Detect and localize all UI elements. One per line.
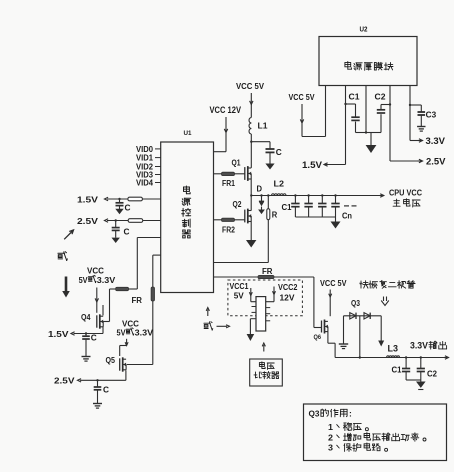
ground (comparator): [250, 318, 256, 320]
resistor (1.5V sense): [128, 197, 142, 201]
diode Q3a: [350, 313, 356, 319]
capacitor C2 (output): [420, 358, 422, 369]
capacitor C (Q5): [96, 379, 98, 381]
capacitor C1 (output): [405, 358, 407, 369]
wire diode mid leg: [359, 316, 361, 358]
wire U2 pin1: [325, 86, 327, 137]
wire main rail: [251, 195, 379, 197]
wire VCC to Q4 gate: [96, 288, 98, 313]
pin comparator right stubs: [266, 307, 271, 309]
svg-text:L2: L2: [274, 179, 285, 189]
svg-text:C: C: [124, 228, 130, 237]
svg-text:1.5V: 1.5V: [77, 195, 98, 205]
inductor L1: [249, 118, 251, 135]
svg-text:C2: C2: [427, 370, 438, 379]
svg-text:12V: 12V: [280, 292, 295, 302]
svg-text:1.5V: 1.5V: [302, 160, 322, 170]
svg-text:VCC 5V: VCC 5V: [289, 92, 315, 102]
transistor Q1: [244, 167, 246, 180]
ground (2.5V C): [112, 238, 120, 243]
wire 2.5V sense: [107, 220, 161, 222]
svg-text:3: 3: [328, 443, 333, 453]
svg-text:FR2: FR2: [222, 226, 235, 235]
svg-text:2.5V: 2.5V: [77, 216, 98, 226]
transistor Q2: [244, 210, 246, 223]
ground (U2 filters): [370, 133, 372, 146]
wire Q5 source to 2.5V: [125, 370, 127, 380]
svg-text:VCC 12V: VCC 12V: [210, 105, 242, 115]
wire FR to Q4: [110, 288, 116, 290]
svg-text:U1: U1: [184, 130, 192, 137]
svg-text:3.3V: 3.3V: [135, 327, 154, 337]
svg-text:2: 2: [328, 432, 333, 442]
svg-text:C3: C3: [426, 111, 437, 120]
svg-text:VCC1: VCC1: [230, 281, 249, 291]
svg-text:FR1: FR1: [222, 179, 235, 188]
svg-text:Q4: Q4: [81, 312, 91, 322]
capacitor bank C1..Cn: [294, 194, 296, 196]
wire Q2 source down: [250, 221, 252, 240]
wire Q4 source to 1.5V: [102, 327, 104, 334]
wire U2 pin3: [365, 86, 367, 133]
pin comparator left stubs: [252, 306, 257, 308]
resistor FR1: [214, 173, 222, 175]
svg-text:D: D: [257, 184, 263, 194]
ground (diode left): [339, 343, 348, 345]
resistor FR (Q4): [116, 287, 129, 290]
svg-text:FR: FR: [132, 296, 143, 305]
wire U2 pin5 to 3.3V: [409, 86, 411, 141]
ground (5V filter C): [265, 164, 274, 170]
transistor Q4: [96, 315, 98, 327]
wire VCC1 to comparator: [250, 288, 252, 302]
svg-text:Cn: Cn: [342, 212, 352, 221]
wire VCC to Q5 gate: [126, 339, 128, 346]
capacitor C (Q4): [85, 332, 87, 334]
svg-text:1.5V: 1.5V: [48, 329, 69, 339]
wire VCC2 to comparator: [273, 287, 275, 302]
wire diode left leg: [343, 316, 345, 344]
svg-text:VCC 5V: VCC 5V: [236, 81, 264, 91]
resistor R: [267, 194, 269, 196]
IC U1 power controller: [161, 142, 214, 293]
wire FR to Q5: [152, 301, 154, 365]
wire Q6 source to output: [327, 332, 329, 344]
IC voltage comparator: [256, 297, 266, 331]
svg-text:3.3V: 3.3V: [426, 136, 446, 146]
svg-text:C1: C1: [349, 93, 361, 102]
svg-text:VID4: VID4: [136, 179, 154, 188]
svg-text:C: C: [103, 386, 109, 395]
svg-text:5V: 5V: [234, 291, 244, 301]
svg-text::: :: [349, 409, 352, 419]
wire Q2 drain to node D: [250, 196, 252, 211]
svg-text:Q1: Q1: [232, 158, 241, 168]
svg-text:C: C: [276, 148, 282, 157]
ground (Q5 C): [93, 403, 102, 405]
svg-text:C: C: [91, 334, 97, 343]
label main voltage: [393, 199, 420, 207]
svg-text:Q3: Q3: [351, 299, 360, 308]
label OR (left): [58, 252, 67, 261]
svg-text:L3: L3: [388, 344, 399, 354]
annotation double arrow down: [383, 297, 385, 302]
svg-text:2.5V: 2.5V: [426, 157, 446, 167]
wire Q1 source to node D: [250, 179, 252, 196]
svg-text:3.3V: 3.3V: [97, 275, 116, 285]
wire rail arrow to CPU VCC: [380, 194, 384, 197]
svg-text:2.5V: 2.5V: [54, 376, 75, 386]
svg-text:VCC 5V: VCC 5V: [320, 278, 347, 288]
wire 3.3V output line: [335, 357, 444, 359]
svg-text:R: R: [272, 211, 278, 220]
label OR (bottom): [204, 322, 213, 330]
svg-text:U2: U2: [360, 25, 368, 34]
svg-text:VCC2: VCC2: [278, 282, 298, 292]
svg-text:Q2: Q2: [233, 199, 242, 209]
wire U2 pin2: [345, 86, 347, 165]
ground (1.5V C): [115, 209, 123, 214]
ground (Q4 C): [82, 356, 91, 358]
svg-text:5V: 5V: [117, 327, 126, 337]
wire L1 to Q1: [250, 134, 252, 168]
svg-text:C2: C2: [375, 93, 387, 102]
wire diode rail: [344, 315, 382, 317]
diode Q3b: [364, 313, 370, 319]
capacitor C (1.5V sense): [118, 198, 120, 200]
wire U2 pin4 to 2.5V: [389, 86, 391, 162]
label comparator box: [250, 359, 283, 386]
resistor FR2: [214, 219, 222, 221]
wire R feedback to U1: [214, 262, 269, 264]
annotation arrow up (or): [207, 310, 209, 317]
resistor FR (bottom): [214, 276, 259, 278]
label U1 power controller text: [184, 186, 191, 194]
svg-text:CPU VCC: CPU VCC: [389, 188, 422, 198]
wire U1 pin to FR net: [137, 237, 160, 239]
svg-text:VID1: VID1: [136, 154, 154, 163]
svg-text:L1: L1: [258, 121, 268, 131]
svg-text:FR: FR: [262, 267, 273, 276]
svg-text:5V: 5V: [79, 275, 88, 285]
svg-text:C1: C1: [392, 366, 403, 375]
label U2 electric source thick film block: [345, 62, 393, 71]
svg-text:Q5: Q5: [106, 355, 116, 365]
resistor (2.5V sense): [128, 219, 143, 223]
dashed box comparator supplies: [228, 280, 303, 316]
note box Q3 function: [304, 404, 447, 461]
annotation arrow up (comparator): [263, 345, 265, 352]
annotation arrow down bold: [65, 277, 68, 292]
svg-text:VID0: VID0: [136, 145, 154, 154]
wire FR to Q6 gate: [313, 277, 315, 328]
inductor L3: [387, 356, 400, 358]
wire diode right leg: [380, 316, 382, 341]
ground (Q2 source): [246, 240, 256, 248]
label fast recovery diode: [360, 280, 415, 288]
annotation arrow NE: [64, 230, 73, 239]
wire U2 pin2 to 1.5V: [328, 164, 346, 166]
svg-text:Q6: Q6: [314, 334, 322, 341]
svg-text:1: 1: [328, 422, 333, 432]
inductor L2: [272, 194, 287, 196]
svg-text:3.3V: 3.3V: [410, 341, 428, 351]
transistor Q6: [321, 321, 323, 333]
ground (cap bank): [335, 217, 337, 222]
capacitor C (5V filter): [251, 141, 270, 143]
svg-text:Q3: Q3: [309, 409, 320, 419]
node D: [250, 194, 252, 196]
capacitor C3: [410, 104, 421, 106]
resistor FR (Q5): [151, 287, 154, 301]
svg-text:C1: C1: [282, 203, 293, 212]
diode D freewheel: [260, 194, 262, 196]
wire Q4 stub: [102, 305, 104, 315]
ground (output): [420, 380, 422, 382]
svg-text:C: C: [125, 204, 131, 213]
IC U2 power thick-film module: [319, 37, 417, 86]
wire U1 pin to FR2 net: [153, 254, 161, 256]
capacitor C (2.5V sense): [115, 219, 117, 221]
wire 1.5V sense: [107, 198, 161, 200]
transistor Q5: [119, 358, 121, 370]
